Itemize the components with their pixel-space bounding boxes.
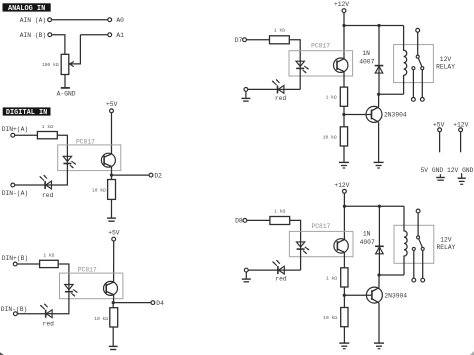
wire bbox=[343, 252, 345, 267]
junction bbox=[378, 205, 381, 208]
wire bbox=[248, 88, 278, 90]
svg-text:12V: 12V bbox=[440, 237, 452, 244]
svg-text:AIN (B): AIN (B) bbox=[20, 32, 46, 39]
svg-text:DIN+(A): DIN+(A) bbox=[2, 126, 28, 133]
wire bbox=[343, 193, 345, 239]
svg-text:A-GND: A-GND bbox=[57, 90, 76, 97]
transistor Q 2N3904 bbox=[366, 287, 382, 303]
wire bbox=[248, 269, 278, 271]
resistor 1 kΩ (B input) bbox=[40, 260, 59, 267]
wire bbox=[439, 132, 441, 153]
svg-text:1 kΩ: 1 kΩ bbox=[274, 208, 285, 214]
wire bbox=[111, 199, 113, 218]
junction bbox=[377, 273, 380, 276]
svg-text:red: red bbox=[275, 276, 287, 283]
relay 12V (D7 channel) bbox=[394, 45, 434, 83]
wire bbox=[300, 249, 302, 270]
relay coil bbox=[404, 26, 407, 95]
ground (5V) bbox=[436, 174, 445, 180]
svg-text:10 kΩ: 10 kΩ bbox=[323, 134, 337, 140]
node A0 bbox=[108, 17, 124, 24]
label 1N4007 bbox=[360, 231, 375, 246]
wire bbox=[57, 135, 67, 156]
wire bbox=[378, 275, 380, 288]
node DIN-(A) bbox=[2, 183, 28, 197]
svg-text:10 kΩ: 10 kΩ bbox=[94, 316, 108, 322]
wire bbox=[80, 34, 107, 36]
junction bbox=[377, 93, 380, 96]
junction bbox=[342, 24, 345, 27]
LED red bbox=[273, 260, 285, 274]
svg-text:+5V: +5V bbox=[106, 101, 118, 108]
power +12V (aux) bbox=[453, 121, 468, 131]
wire bbox=[379, 93, 404, 95]
opto LED bbox=[63, 156, 76, 168]
svg-text:A1: A1 bbox=[116, 32, 124, 39]
svg-text:red: red bbox=[275, 95, 287, 102]
ground A-GND bbox=[57, 88, 76, 97]
power +5V (aux) bbox=[433, 121, 445, 131]
label ANALOG IN bbox=[3, 4, 50, 13]
node D4 bbox=[151, 300, 164, 307]
svg-text:D7: D7 bbox=[235, 37, 243, 44]
node AIN (B) bbox=[20, 32, 52, 39]
power +12V (D8 channel) bbox=[334, 182, 349, 193]
node D2 bbox=[149, 172, 162, 179]
resistor 1 kΩ (D7 base) bbox=[340, 87, 347, 106]
opto LED bbox=[296, 242, 309, 254]
svg-text:2N3904: 2N3904 bbox=[384, 112, 407, 119]
ground (12V) bbox=[458, 173, 466, 184]
wire bbox=[344, 294, 372, 296]
resistor 1 kΩ (D7 input) bbox=[270, 36, 290, 44]
wire bbox=[111, 167, 113, 176]
wire bbox=[17, 263, 39, 265]
node DIN+(A) bbox=[2, 126, 28, 137]
wire bbox=[378, 122, 380, 162]
wire bbox=[289, 40, 300, 62]
svg-text:PC817: PC817 bbox=[78, 267, 97, 274]
wire bbox=[112, 174, 150, 176]
opto phototransistor bbox=[334, 239, 348, 253]
wire bbox=[113, 302, 151, 304]
wire bbox=[378, 94, 380, 107]
wire bbox=[343, 327, 345, 343]
wire bbox=[284, 88, 300, 90]
ground (LED return) bbox=[242, 268, 251, 282]
wire bbox=[52, 164, 68, 186]
power +12V (D7 channel) bbox=[334, 1, 349, 12]
opto phototransistor bbox=[334, 58, 348, 72]
wire bbox=[52, 35, 65, 55]
node D8 bbox=[235, 218, 247, 225]
svg-text:PC817: PC817 bbox=[311, 42, 330, 49]
svg-text:D8: D8 bbox=[235, 218, 243, 225]
transistor Q 2N3904 bbox=[366, 106, 382, 122]
svg-text:RELAY: RELAY bbox=[436, 63, 455, 70]
wire bbox=[299, 68, 301, 89]
wire bbox=[344, 25, 404, 27]
wire bbox=[52, 19, 108, 21]
junction bbox=[343, 294, 346, 297]
label 12V RELAY bbox=[436, 56, 455, 70]
svg-text:red: red bbox=[43, 321, 55, 328]
optocoupler PC817 (B) bbox=[60, 273, 123, 299]
wire bbox=[15, 134, 38, 136]
wire bbox=[344, 205, 404, 207]
wire bbox=[113, 295, 115, 303]
relay 12V (D8 channel) bbox=[394, 225, 434, 263]
wire bbox=[112, 303, 114, 308]
node DIN-(B) bbox=[1, 306, 27, 316]
svg-text:RELAY: RELAY bbox=[437, 244, 456, 251]
resistor 1 kΩ (D8 input) bbox=[270, 217, 290, 225]
svg-text:4007: 4007 bbox=[359, 58, 374, 65]
svg-text:1N: 1N bbox=[362, 50, 370, 57]
node D7 bbox=[235, 37, 247, 44]
wire bbox=[58, 264, 69, 285]
wire bbox=[246, 39, 269, 41]
svg-text:1N: 1N bbox=[363, 231, 371, 238]
node DIN+(B) bbox=[2, 255, 28, 266]
power +5V (B) bbox=[108, 229, 120, 241]
wire bbox=[52, 292, 69, 314]
wire bbox=[112, 327, 114, 346]
junction bbox=[343, 205, 346, 208]
svg-text:+5V: +5V bbox=[433, 121, 445, 128]
wire bbox=[113, 241, 115, 282]
ground (LED return) bbox=[241, 88, 250, 102]
wire bbox=[343, 287, 345, 308]
svg-text:DIGITAL IN: DIGITAL IN bbox=[6, 109, 47, 117]
svg-text:1 kΩ: 1 kΩ bbox=[42, 124, 53, 130]
svg-text:4007: 4007 bbox=[360, 239, 375, 246]
relay contact common bbox=[416, 209, 420, 236]
svg-text:ANALOG IN: ANALOG IN bbox=[8, 5, 45, 13]
ground bbox=[339, 162, 349, 168]
wire bbox=[15, 184, 45, 186]
node A1 bbox=[108, 32, 124, 39]
LED red bbox=[40, 175, 52, 189]
resistor 10 kΩ (B) bbox=[110, 308, 118, 327]
svg-text:PC817: PC817 bbox=[312, 223, 331, 230]
junction bbox=[377, 24, 380, 27]
svg-text:5V GND 12V GND: 5V GND 12V GND bbox=[421, 167, 474, 174]
svg-text:10 kΩ: 10 kΩ bbox=[92, 188, 106, 194]
potentiometer 100 kΩ bbox=[61, 35, 80, 75]
diode 1N4007 bbox=[375, 206, 384, 275]
ground bbox=[339, 343, 349, 349]
svg-text:12V: 12V bbox=[440, 56, 452, 63]
junction bbox=[112, 301, 115, 304]
opto phototransistor bbox=[104, 281, 118, 295]
optocoupler PC817 (A) bbox=[58, 145, 121, 171]
wire bbox=[343, 13, 345, 59]
wire bbox=[284, 269, 300, 271]
svg-text:AIN (A): AIN (A) bbox=[20, 17, 46, 24]
LED red bbox=[272, 79, 284, 93]
opto LED bbox=[65, 285, 78, 297]
ground bbox=[109, 346, 118, 349]
wire bbox=[379, 274, 404, 276]
svg-text:D2: D2 bbox=[154, 172, 162, 179]
svg-text:red: red bbox=[42, 192, 54, 199]
relay contact NC bbox=[412, 247, 416, 282]
power +5V (A) bbox=[106, 101, 118, 113]
optocoupler PC817 (D7) bbox=[289, 51, 353, 76]
svg-text:DIN-(A): DIN-(A) bbox=[2, 190, 28, 197]
wire bbox=[17, 313, 45, 315]
wire bbox=[247, 219, 270, 221]
wire bbox=[343, 146, 345, 162]
resistor 10 kΩ (D7) bbox=[340, 127, 347, 146]
wire bbox=[64, 75, 66, 88]
resistor 1 kΩ (D8 base) bbox=[341, 268, 348, 287]
LED red bbox=[40, 304, 52, 318]
wire bbox=[344, 114, 372, 116]
opto LED bbox=[296, 61, 309, 73]
wire bbox=[111, 113, 113, 154]
optocoupler PC817 (D8) bbox=[289, 231, 353, 256]
label 12V RELAY bbox=[437, 237, 456, 251]
wire bbox=[378, 303, 380, 343]
resistor 10 kΩ (A) bbox=[108, 180, 116, 200]
ground bbox=[107, 218, 116, 221]
svg-text:2N3904: 2N3904 bbox=[384, 292, 407, 299]
junction bbox=[342, 113, 345, 116]
svg-text:D4: D4 bbox=[156, 300, 164, 307]
wire bbox=[343, 72, 345, 88]
svg-text:100 kΩ: 100 kΩ bbox=[42, 62, 59, 68]
node AIN (A) bbox=[20, 17, 52, 24]
relay coil bbox=[404, 206, 407, 275]
relay armature bbox=[417, 236, 423, 247]
wire bbox=[111, 175, 113, 179]
svg-text:1 kΩ: 1 kΩ bbox=[43, 253, 54, 259]
svg-text:1 kΩ: 1 kΩ bbox=[326, 275, 337, 281]
wire bbox=[343, 106, 345, 127]
svg-text:+5V: +5V bbox=[108, 229, 120, 236]
svg-text:DIN+(B): DIN+(B) bbox=[2, 255, 28, 262]
svg-text:A0: A0 bbox=[116, 17, 124, 24]
svg-text:PC817: PC817 bbox=[76, 138, 95, 145]
label 1N4007 bbox=[359, 50, 374, 65]
opto phototransistor bbox=[101, 153, 115, 167]
junction bbox=[110, 174, 113, 177]
resistor 1 kΩ (A input) bbox=[37, 132, 57, 139]
relay contact NO bbox=[421, 247, 425, 282]
wire bbox=[290, 220, 301, 242]
ground bbox=[374, 162, 384, 168]
label DIGITAL IN bbox=[3, 108, 50, 117]
relay contact NC bbox=[412, 67, 416, 102]
wire bbox=[460, 132, 462, 153]
svg-text:1 kΩ: 1 kΩ bbox=[326, 95, 337, 101]
svg-text:+12V: +12V bbox=[334, 182, 349, 189]
relay contact common bbox=[416, 28, 420, 55]
relay armature bbox=[416, 55, 422, 66]
svg-text:+12V: +12V bbox=[334, 1, 349, 8]
relay contact NO bbox=[420, 67, 424, 102]
svg-text:10 kΩ: 10 kΩ bbox=[323, 315, 337, 321]
diode 1N4007 bbox=[375, 26, 384, 95]
resistor 10 kΩ (D8) bbox=[341, 308, 348, 327]
svg-text:1 kΩ: 1 kΩ bbox=[274, 28, 285, 34]
ground bbox=[374, 343, 384, 349]
